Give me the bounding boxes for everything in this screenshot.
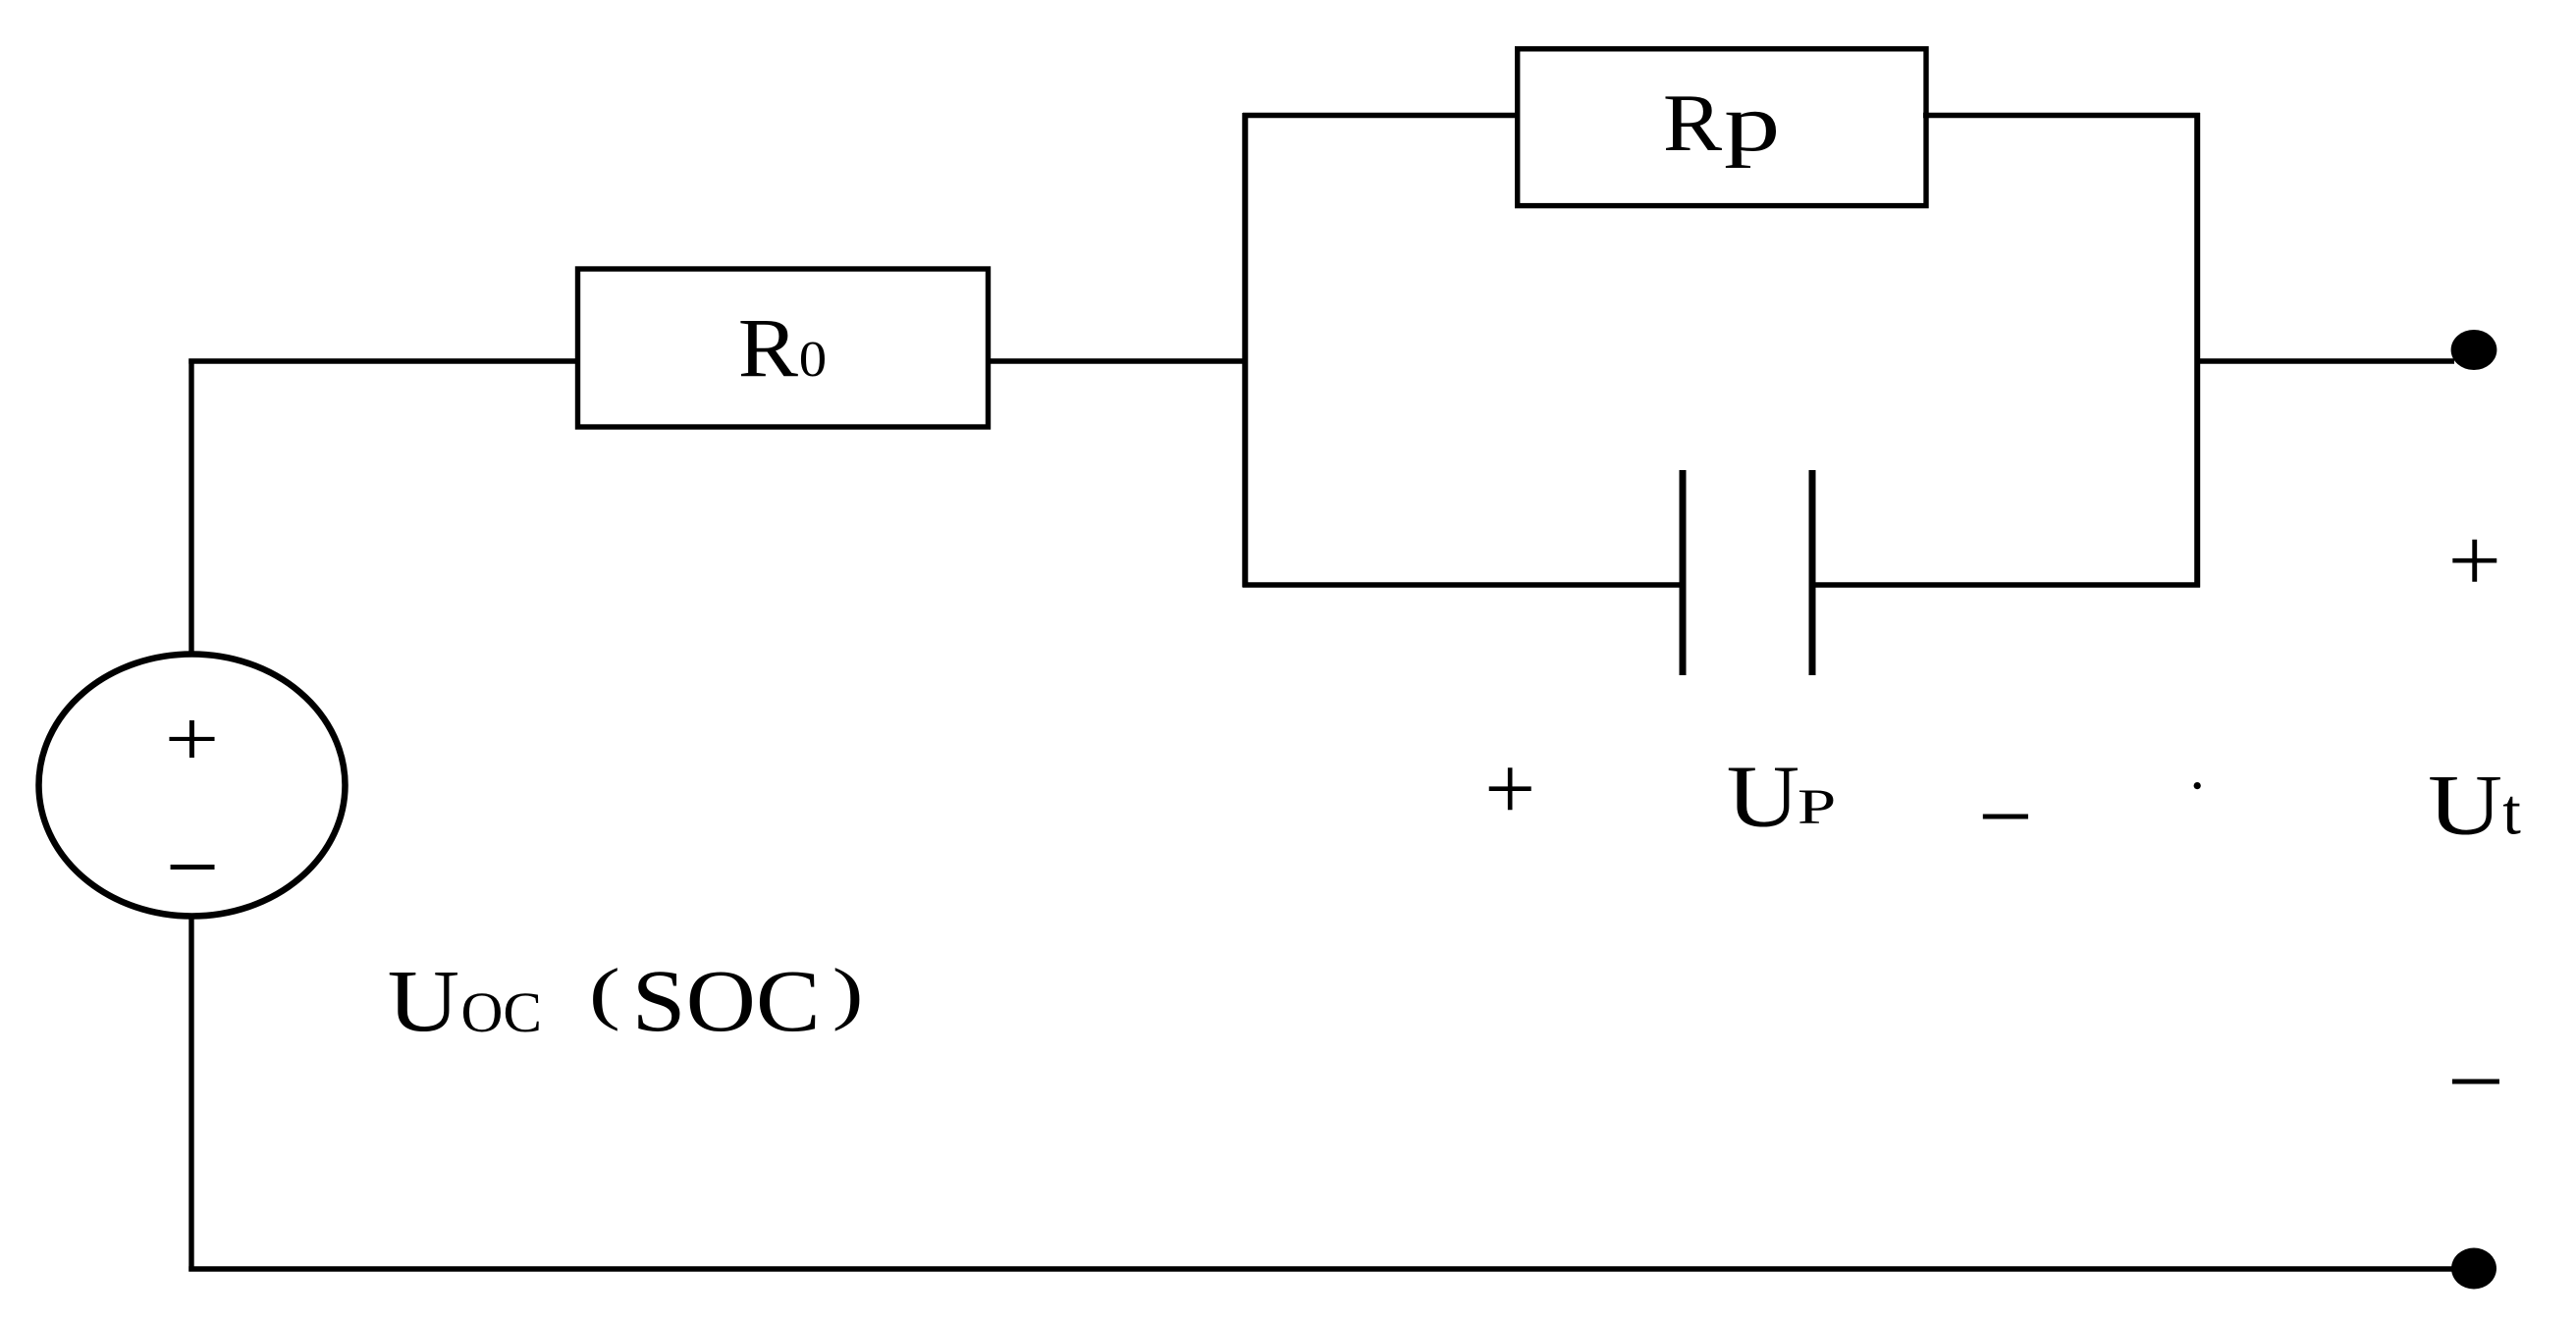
svg-text:0: 0 [799, 332, 827, 388]
svg-text:R: R [738, 300, 799, 395]
wire from source branch to R0 (top-left horizontal) [188, 358, 580, 363]
wire bottom rail to negative terminal [188, 1266, 2456, 1271]
svg-text:−: − [166, 813, 219, 922]
resistor Rp [1518, 49, 1926, 206]
svg-text:+: + [165, 694, 220, 783]
+ polarity of terminal voltage [2448, 511, 2501, 611]
- polarity inside source [166, 813, 219, 922]
- polarity of terminal voltage [2447, 1028, 2504, 1137]
svg-text:): ) [832, 956, 864, 1032]
svg-text:+: + [1484, 738, 1535, 838]
svg-text:−: − [1978, 762, 2033, 871]
wire RC group top-right branch [1923, 113, 2200, 118]
svg-text:U: U [1727, 749, 1800, 846]
svg-text:U: U [2428, 759, 2502, 854]
- polarity of capacitor voltage [1978, 762, 2033, 871]
capacitor Cp right plate [1809, 470, 1816, 675]
node: RC group right vertical [2194, 113, 2200, 588]
capacitor Cp left plate [1680, 470, 1687, 675]
wire R0 to RC group [988, 358, 1248, 363]
svg-text:t: t [2502, 776, 2521, 849]
wire left vertical from top rail down to source top [188, 359, 193, 658]
stray dot [2194, 782, 2201, 789]
svg-text:(: ( [589, 956, 620, 1032]
wire RC group bottom-right branch [1815, 582, 2201, 587]
wire from source bottom to bottom rail [188, 914, 193, 1272]
wire RC group bottom-left branch [1243, 582, 1681, 587]
svg-text:SOC: SOC [632, 953, 821, 1050]
+ polarity inside source [165, 694, 220, 783]
svg-text:−: − [2447, 1028, 2504, 1137]
svg-text:P: P [1798, 780, 1836, 835]
svg-text:+: + [2448, 511, 2501, 611]
wire RC group top-left branch [1243, 113, 1521, 118]
svg-text:R: R [1663, 78, 1722, 169]
svg-text:p: p [1724, 78, 1781, 169]
wire RC group to positive terminal [2197, 358, 2454, 363]
resistor R0 [578, 269, 989, 427]
terminal node dot negative [2451, 1248, 2496, 1290]
+ polarity of capacitor voltage [1484, 738, 1535, 838]
svg-text:OC: OC [461, 980, 543, 1044]
svg-text:U: U [388, 953, 460, 1050]
terminal node dot positive [2451, 330, 2497, 370]
voltage source U_OC circle [39, 655, 346, 917]
node: RC group left vertical [1242, 113, 1248, 588]
